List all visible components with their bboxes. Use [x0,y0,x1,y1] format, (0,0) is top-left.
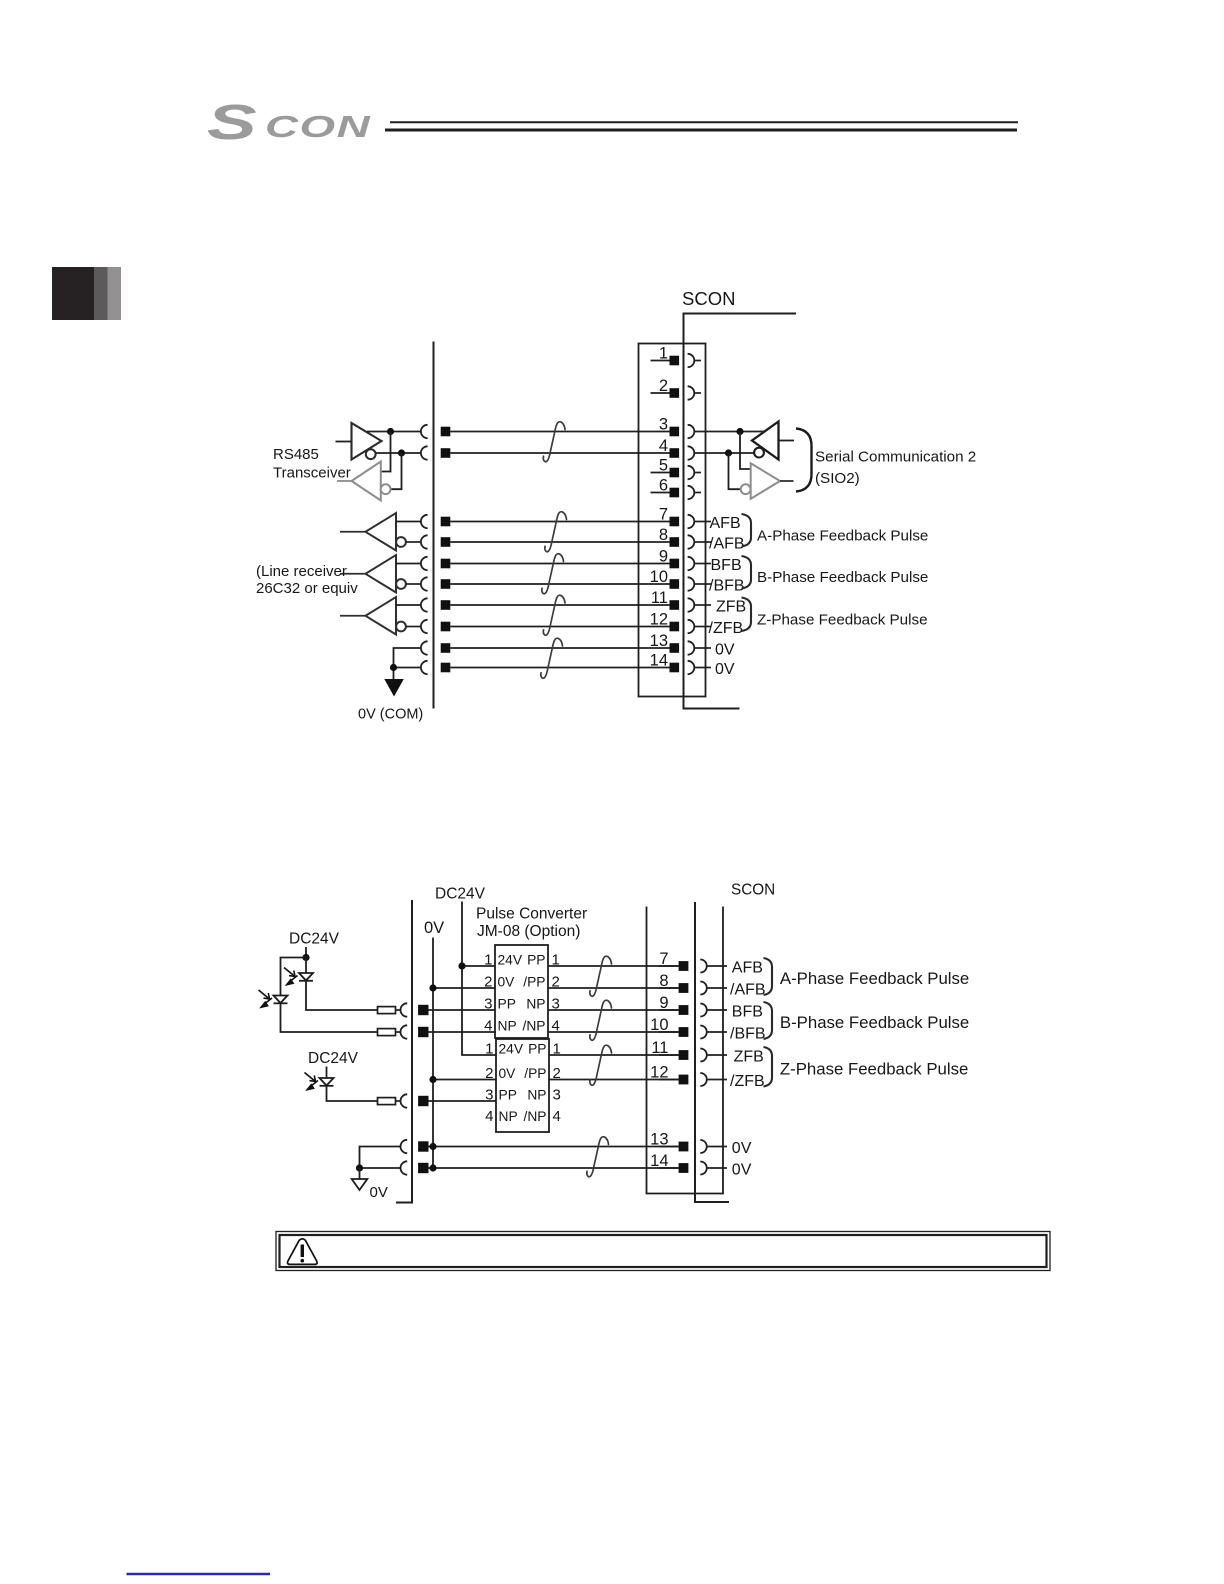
svg-text:0V (COM): 0V (COM) [358,707,423,723]
line receiver Z-phase output wire [340,615,366,617]
svg-text:S: S [207,95,257,149]
wire jog pin3 to receiver input [381,432,391,472]
pin 14 contact arc [688,661,695,674]
cable twist mark pins 3/4 [543,422,565,462]
label BFB pin 9 (diagram 2) [732,1004,763,1021]
junction node ground rail [390,664,397,671]
cable plug arc 0V pin13 (left, diagram 2) [400,1140,407,1153]
resistor R2 [378,1029,401,1036]
wire pin 14 to ground rail [394,667,421,669]
pin 1 terminal stub and square [651,356,680,366]
cable terminal square pin 8 (left) [441,537,451,547]
svg-text:SCON: SCON [682,288,735,309]
pin 3 number [659,416,668,434]
resistor R3 [378,1098,401,1105]
svg-text:4: 4 [485,1108,493,1125]
SCON pin 7 number (diagram 2) [659,950,668,968]
LED D1 (opto) [299,973,313,981]
resistor R1 [378,1007,401,1014]
pin 2 number [659,377,668,395]
SIO2 receiver circle [754,448,764,458]
SCON pin 9 number (diagram 2) [659,994,668,1012]
label 0V pin 13 (diagram 2) [732,1140,752,1157]
Z-Phase Feedback Pulse label (diagram 2) [780,1060,968,1079]
svg-text:AFB: AFB [732,960,763,977]
0V rail [432,938,434,1169]
cable plug arc 0V pin14 (left, diagram 2) [401,1161,408,1174]
A-Phase Feedback Pulse label (diagram 2) [780,969,969,988]
cable plug arc pin 4 (left) [421,446,428,459]
pin 14 terminal stub and square [651,663,680,673]
SIO2 driver output wire [780,480,794,482]
wire pin13 to 0V ground (diagram 2) [360,1147,401,1169]
cable plug arc Z PP (left, diagram 2) [401,1094,408,1107]
cable plug arc PP (left, diagram 2) [401,1003,408,1016]
cable wire pin 11 [450,604,650,606]
svg-text:0V: 0V [732,1162,752,1179]
cable plug arc pin 9 (left) [421,557,428,570]
svg-text:/PP: /PP [523,975,545,990]
ground stem (diagram 2) [359,1168,361,1179]
cable terminal square NP (left, diagram 2) [418,1027,428,1037]
cable twist mark pins 7/8 [545,512,567,552]
wire converter to SCON pin 8 [548,987,679,989]
svg-text:Transceiver: Transceiver [273,465,351,482]
svg-text:NP: NP [527,1088,546,1103]
svg-text:/AFB: /AFB [730,982,766,999]
svg-text:4: 4 [553,1108,561,1125]
svg-text:3: 3 [553,1087,561,1104]
DC24V source label (opto 2) [308,1050,359,1067]
svg-text:Pulse Converter: Pulse Converter [476,906,587,923]
SIO2 driver triangle (gray) [751,463,780,499]
caution box inner border [280,1235,1047,1267]
RS485 Transceiver label [273,446,351,482]
pin 8 terminal stub and square [651,537,680,547]
pin 4 terminal stub and square [651,448,680,458]
label /AFB pin 8 (diagram 2) [730,982,766,999]
pin 4 number [659,437,668,455]
SCON pin 14 contact arc (diagram 2) [700,1162,707,1175]
cable twist mark pins 9/10 (diagram 2) [590,1000,612,1040]
label /BFB pin 10 [709,578,745,595]
wire pin 8 to label [695,541,711,543]
pin 7 terminal stub and square [651,517,680,527]
cable plug arc NP (left, diagram 2) [400,1025,407,1038]
SIO2 receiver output wire [779,440,795,442]
line receiver A-phase input wire (top) [396,521,420,523]
svg-text:(Line receiver: (Line receiver [256,563,347,580]
SCON pin 13 number (diagram 2) [650,1131,668,1149]
label AFB pin 7 [710,515,741,532]
SCON boundary line (diagram 2) [695,902,729,1202]
RS485 driver triangle [352,423,382,460]
wire converter to SCON pin 9 [548,1009,679,1011]
svg-text:Z-Phase Feedback Pulse: Z-Phase Feedback Pulse [757,612,928,629]
wire jog pin4 to SIO2 driver circle [729,453,741,489]
SCON pin 12 number (diagram 2) [650,1064,668,1082]
pin 7 contact arc [688,515,695,528]
SCON pin 8 number (diagram 2) [659,972,668,990]
RS485 receiver output wire [337,480,352,482]
SCON pin 12 contact arc (diagram 2) [700,1073,707,1086]
line receiver A-phase input wire (bottom) [406,541,420,543]
line receiver A-phase output wire [340,531,366,533]
svg-text:PP: PP [498,997,516,1012]
cable wire pin 10 [450,583,650,585]
A-phase pair bracket (diagram 2) [764,958,773,995]
wire pin 13 to ground rail [394,648,421,679]
pin 13 number [650,632,668,650]
caution box outer border [276,1232,1050,1271]
svg-text:RS485: RS485 [273,446,319,463]
wire PP to converter1 pin3 [428,1009,495,1011]
cable plug arc pin 13 (left) [421,641,428,654]
pin 3 contact arc [688,425,695,438]
line receiver B-phase inverting circle [396,579,406,589]
pin 12 terminal stub and square [651,622,680,632]
SCON pin 9 underline and square (diagram 2) [659,1005,688,1015]
SIO2 group bracket [796,429,812,492]
A-Phase Feedback Pulse label [757,528,928,545]
svg-text:/NP: /NP [524,1109,547,1124]
cable terminal square 0V pin13 (left, diagram 2) [418,1141,428,1151]
line receiver A-phase inverting circle [396,537,406,547]
wire converter to SCON pin 7 [548,965,679,967]
pin 13 contact arc [688,641,695,654]
cable wire pin 13 [450,647,650,649]
pin 5 contact arc [688,466,695,479]
junction node pin 3 (right) [736,428,743,435]
connector pin box [639,344,706,697]
svg-text:24V: 24V [498,953,523,968]
cable plug arc pin 11 (left) [421,598,428,611]
SCON pin 11 contact arc (diagram 2) [700,1049,707,1062]
pin 8 contact arc [688,535,695,548]
pin 11 number [651,589,668,607]
pin 14 number [650,652,668,670]
line receiver B-phase input wire (top) [396,563,420,565]
B-phase pair bracket [742,556,752,589]
svg-text:Z-Phase Feedback Pulse: Z-Phase Feedback Pulse [780,1060,968,1079]
svg-text:0V: 0V [498,975,516,990]
line receiver triangle Z-phase [366,597,397,635]
pin 1 contact arc [688,354,695,367]
pin 12 number [650,611,668,629]
svg-text:0V: 0V [715,661,735,678]
wire pin 11 to label [695,604,711,606]
junction node pin 3 (left) [387,428,394,435]
wire DC24V to converter1 pin1 [458,962,495,969]
SCON pin 7 stub (diagram 2) [708,965,727,967]
wire driver output to pin 3 [367,431,420,433]
pin 8 number [659,526,668,544]
svg-text:NP: NP [498,1019,517,1034]
svg-text:/AFB: /AFB [709,536,745,553]
cable terminal square pin 7 (left) [441,517,451,527]
line receiver Z-phase input wire (bottom) [406,626,420,628]
svg-text:PP: PP [528,1042,546,1057]
svg-text:0V: 0V [715,642,735,659]
SCON logo [207,95,371,149]
svg-text:B-Phase Feedback Pulse: B-Phase Feedback Pulse [780,1013,969,1032]
label ZFB pin 11 [716,599,746,616]
pin 13 terminal stub and square [651,643,680,653]
pulse converter box 2 [496,1039,549,1132]
Line receiver label [256,563,358,597]
cable terminal square PP (left, diagram 2) [418,1005,428,1015]
svg-text:/BFB: /BFB [730,1026,766,1043]
wire LED D2 to resistor R2 [281,1003,378,1032]
cable wire pin 8 [450,541,650,543]
SCON pin column (diagram 2) [647,907,724,1194]
external device boundary (left) [433,342,435,709]
wire PP to converter2 pin3 [428,1100,496,1102]
junction node pin 4 (left) [398,449,405,456]
LED D3 emission arrows [305,1073,319,1092]
ground symbol 0V (open triangle) [352,1179,368,1190]
wire pin 7 to label [695,521,711,523]
Pulse Converter JM-08 label [476,906,587,941]
label 0V pin 14 (diagram 2) [732,1162,752,1179]
wire pin 14 to label [695,667,711,669]
wire converter to SCON pin 12 [549,1079,679,1081]
cable plug arc pin 12 (left) [421,620,428,633]
wire 0V to converter2 pin2 [429,1076,496,1083]
SCON pin 10 contact arc (diagram 2) [700,1026,707,1039]
0V (COM) label [358,707,423,723]
label /BFB pin 10 (diagram 2) [730,1026,766,1043]
cable twist mark pins 7/8 (diagram 2) [590,956,612,996]
svg-text:26C32 or equiv: 26C32 or equiv [256,580,358,597]
pin 11 contact arc [688,598,695,611]
svg-text:NP: NP [526,997,545,1012]
pin 2 stub wire [695,392,701,394]
wire circle output to pin 4 [376,452,421,454]
svg-text:ZFB: ZFB [734,1049,764,1066]
SCON pin 12 underline and square (diagram 2) [659,1075,688,1085]
SCON pin 9 stub (diagram 2) [708,1009,727,1011]
label /ZFB pin 12 (diagram 2) [730,1073,765,1090]
wire pin 10 to label [695,583,711,585]
svg-text:A-Phase Feedback Pulse: A-Phase Feedback Pulse [757,528,928,545]
label AFB pin 7 (diagram 2) [732,960,763,977]
SIO2 driver circle (gray) [741,484,751,494]
DC24V rail label [435,886,486,903]
label ZFB pin 11 (diagram 2) [734,1049,764,1066]
SCON pin 14 number (diagram 2) [650,1152,668,1170]
cable terminal square pin 13 (left) [441,643,451,653]
wire pin 14 cable (diagram 2) [429,1164,679,1171]
caution triangle icon [287,1239,317,1265]
SCON pin 14 underline and square (diagram 2) [659,1163,688,1173]
cable wire pin 3 [450,431,650,433]
cable terminal square pin 10 (left) [441,579,451,589]
line receiver Z-phase inverting circle [396,622,406,632]
SCON pin 14 stub (diagram 2) [708,1167,727,1169]
LED D2 (opto) [274,996,288,1004]
LED D3 (opto) [320,1078,334,1086]
converter2 row 2 labels [485,1065,561,1082]
converter1 row 3 labels [484,996,560,1013]
LED D2 branch wire [281,958,307,996]
svg-text:PP: PP [527,953,545,968]
Z-phase pair bracket (diagram 2) [764,1047,773,1087]
svg-text:/BFB: /BFB [709,578,745,595]
SCON pin 13 underline and square (diagram 2) [659,1142,688,1152]
svg-text:B-Phase Feedback Pulse: B-Phase Feedback Pulse [757,569,928,586]
svg-text:JM-08 (Option): JM-08 (Option) [477,923,580,940]
line receiver triangle B-phase [366,555,397,593]
line receiver Z-phase input wire (top) [396,604,420,606]
cable wire pin 14 [450,667,650,669]
svg-text:0V: 0V [424,919,444,937]
cable wire pin 12 [450,626,650,628]
RS485 receiver circle (gray) [381,484,391,494]
cable plug arc pin 3 (left) [421,425,428,438]
RS485 driver input wire [336,441,352,443]
SIO2 receiver triangle [752,422,779,460]
cable twist mark pins 13/14 (diagram 2) [587,1137,609,1177]
SCON pin 13 contact arc (diagram 2) [700,1140,707,1153]
pin 5 number [659,457,668,475]
RS485 receiver triangle (gray) [352,462,381,501]
label BFB pin 9 [711,557,742,574]
wire pin14 to 0V ground (diagram 2) [356,1164,400,1171]
pin 3 terminal stub and square [651,427,680,437]
svg-text:PP: PP [499,1088,517,1103]
B-phase pair bracket (diagram 2) [764,1002,773,1039]
converter1 row 4 labels [484,1018,560,1035]
svg-text:BFB: BFB [711,557,742,574]
pin 1 stub wire [695,360,701,362]
pin 5 terminal stub and square [651,468,680,478]
SCON pin 8 contact arc (diagram 2) [700,982,707,995]
pin 9 terminal stub and square [651,559,680,569]
cable twist mark pins 11/12 (diagram 2) [590,1045,612,1085]
cable terminal square pin 9 (left) [441,559,451,569]
SCON label (diagram 1) [682,288,735,309]
pin 5 stub wire [695,472,701,474]
wire LED D1 to resistor R1 [306,981,378,1010]
svg-text:BFB: BFB [732,1004,763,1021]
SCON pin 10 number (diagram 2) [650,1016,668,1034]
pin 9 contact arc [688,557,695,570]
svg-text:/PP: /PP [524,1066,546,1081]
SCON pin 10 stub (diagram 2) [708,1031,727,1033]
RS485 driver inverting circle [366,449,376,459]
svg-text:/NP: /NP [523,1019,546,1034]
pin 10 terminal stub and square [651,579,680,589]
B-Phase Feedback Pulse label [757,569,928,586]
junction node pin 4 (right) [725,449,732,456]
cable terminal square 0V pin14 (left, diagram 2) [418,1163,428,1173]
DC24V rail [462,902,496,1056]
svg-text:CON: CON [265,110,371,144]
pin 2 contact arc [688,386,695,399]
SCON pin 10 underline and square (diagram 2) [659,1027,688,1037]
cable terminal square Z PP (left, diagram 2) [418,1096,428,1106]
pin 6 stub wire [695,492,701,494]
footer rule (blue) [127,1573,271,1575]
label /AFB pin 8 [709,536,745,553]
cable twist mark pins 11/12 [543,595,565,635]
label 0V pin 14 [715,661,735,678]
svg-text:DC24V: DC24V [289,931,340,948]
pulse converter box 1 [495,945,548,1038]
cable plug arc pin 7 (left) [421,515,428,528]
cable terminal square pin 11 (left) [441,600,451,610]
wire converter to SCON pin 11 [549,1054,679,1056]
pin 6 number [659,477,668,495]
SCON pin 11 underline and square (diagram 2) [659,1050,688,1060]
svg-text:/ZFB: /ZFB [709,620,744,637]
svg-text:AFB: AFB [710,515,741,532]
cable wire pin 4 [450,452,650,454]
cable terminal square pin 14 (left) [441,663,451,673]
pin 2 terminal stub and square [651,388,680,398]
SCON pin 13 stub (diagram 2) [708,1146,727,1148]
converter2 row 4 labels [485,1108,561,1125]
SCON pin 12 stub (diagram 2) [708,1079,727,1081]
wire pin 4 to SIO2 circle [695,452,754,454]
svg-text:(SIO2): (SIO2) [815,470,860,487]
svg-text:ZFB: ZFB [716,599,746,616]
pin 4 contact arc [688,446,695,459]
pin 6 terminal stub and square [651,488,680,498]
SCON pin 11 number (diagram 2) [651,1039,668,1057]
pin 6 contact arc [688,486,695,499]
svg-text:/ZFB: /ZFB [730,1073,765,1090]
cable twist mark pins 9/10 [542,554,564,594]
pin 9 number [659,548,668,566]
svg-text:NP: NP [499,1109,518,1124]
svg-text:0V: 0V [732,1140,752,1157]
pin 10 number [650,568,668,586]
0V ground label (diagram 2) [370,1184,388,1201]
SCON pin 11 stub (diagram 2) [708,1054,727,1056]
svg-text:A-Phase Feedback Pulse: A-Phase Feedback Pulse [780,969,969,988]
wire jog pin3 to SIO2 driver [740,432,751,470]
LED D2 emission arrows [259,990,273,1009]
wire converter to SCON pin 10 [548,1031,679,1033]
converter2 row 3 labels [485,1087,561,1104]
external device boundary (diagram 2) [396,900,412,1203]
cable terminal square pin 12 (left) [441,622,451,632]
svg-text:DC24V: DC24V [308,1050,359,1067]
svg-text:DC24V: DC24V [435,886,486,903]
wire 0V to converter1 pin2 [429,984,495,991]
svg-text:SCON: SCON [731,882,775,899]
svg-text:1: 1 [485,1041,493,1058]
B-Phase Feedback Pulse label (diagram 2) [780,1013,969,1032]
pin 12 contact arc [688,620,695,633]
wire pin 13 cable (diagram 2) [429,1143,679,1150]
converter2 row 1 labels [485,1041,561,1058]
wire LED D3 to resistor R3 [327,1086,378,1101]
cable plug arc pin 8 (left) [421,535,428,548]
LED D1 emission arrows [284,968,298,987]
cable twist mark pins 13/14 [541,638,563,678]
SCON pin 7 underline and square (diagram 2) [659,961,688,971]
DC24V source stub [302,947,309,961]
wire pin 12 to label [695,626,711,628]
SCON label (diagram 2) [731,882,775,899]
LED D1 branch wire [305,958,307,974]
LED D3 feed wire [326,1067,328,1079]
SCON pin 8 stub (diagram 2) [708,987,727,989]
wire pin 3 to SIO2 [695,431,765,433]
